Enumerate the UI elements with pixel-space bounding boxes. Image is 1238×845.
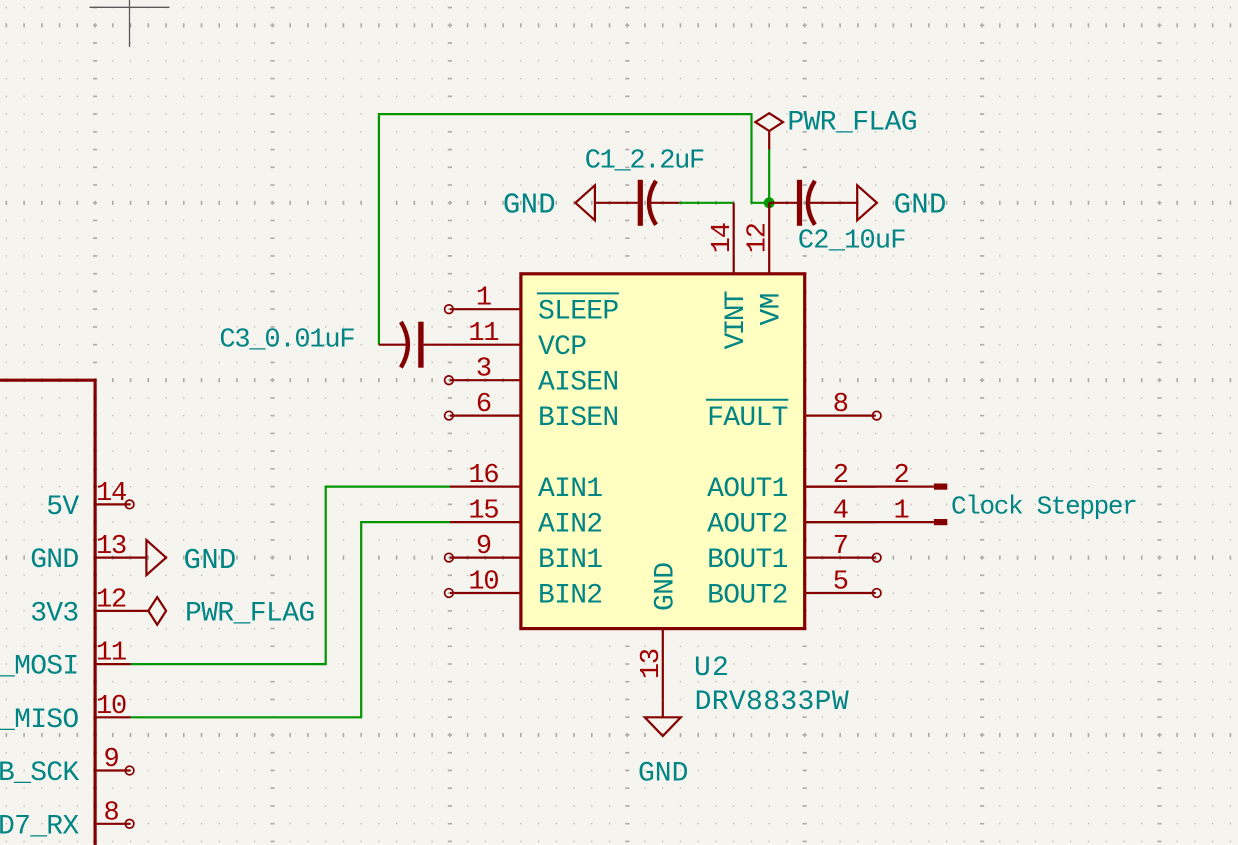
svg-text:10: 10 <box>96 692 126 722</box>
svg-text:PWR_FLAG: PWR_FLAG <box>185 599 315 630</box>
svg-text:AOUT2: AOUT2 <box>707 510 788 541</box>
svg-text:1: 1 <box>893 497 908 527</box>
svg-text:BOUT2: BOUT2 <box>707 581 788 612</box>
connector pin 10 _MISO <box>0 692 131 736</box>
IC pin 7 BOUT1 <box>707 532 881 576</box>
connector pin 14 5V <box>46 479 134 523</box>
svg-text:8: 8 <box>103 798 118 828</box>
svg-text:2: 2 <box>893 461 908 491</box>
IC pin 4 AOUT2 <box>707 497 876 541</box>
capacitor C2 10uF <box>769 180 906 257</box>
svg-text:14: 14 <box>708 223 738 253</box>
svg-text:GND: GND <box>650 563 681 611</box>
IC pin 15 AIN2 <box>450 497 603 541</box>
wire PWR_FLAG stub down to junction <box>768 150 770 203</box>
svg-text:SLEEP: SLEEP <box>538 297 619 328</box>
svg-text:GND: GND <box>638 758 688 789</box>
junction <box>764 197 775 208</box>
svg-text:13: 13 <box>96 532 126 562</box>
op IC U2 DRV8833PW body <box>521 274 805 629</box>
IC pin 6 BISEN <box>445 390 619 434</box>
power flag at VM junction <box>755 107 917 149</box>
svg-text:15: 15 <box>468 497 498 527</box>
connector pin 12 3V3 <box>30 585 130 629</box>
connector J1 body <box>0 380 95 845</box>
svg-text:11: 11 <box>96 639 126 669</box>
svg-text:AISEN: AISEN <box>538 368 619 399</box>
capacitor C1 2.2uF <box>585 147 704 226</box>
wire MISO to AIN2 <box>131 522 450 717</box>
svg-text:BIN1: BIN1 <box>538 545 602 576</box>
IC pin 1 SLEEP <box>445 284 619 328</box>
svg-text:12: 12 <box>744 223 774 253</box>
svg-text:5V: 5V <box>46 492 79 523</box>
power flag at connector pin 12 <box>131 597 315 629</box>
svg-text:9: 9 <box>476 532 491 562</box>
svg-text:5: 5 <box>833 568 848 598</box>
wire C1 to pin 14 VINT <box>679 202 734 204</box>
svg-text:BOUT1: BOUT1 <box>707 545 788 576</box>
stepper connector pin 1 <box>805 497 948 527</box>
ground symbol at connector pin 13 <box>131 540 237 577</box>
IC pin 9 BIN1 <box>445 532 603 576</box>
svg-text:_MOSI: _MOSI <box>0 652 79 683</box>
svg-text:BISEN: BISEN <box>538 403 619 434</box>
wire VCP net: C3 up and across to junction <box>379 114 769 345</box>
svg-text:13: 13 <box>637 649 667 679</box>
svg-text:8: 8 <box>833 390 848 420</box>
stepper connector pin 2 <box>805 461 948 491</box>
connector pin 11 _MOSI <box>0 639 131 683</box>
ground symbol below IC <box>638 700 688 790</box>
crosshair cursor <box>90 6 170 8</box>
IC pin 12 VM <box>744 203 788 326</box>
svg-text:Clock Stepper: Clock Stepper <box>951 491 1136 521</box>
svg-text:AIN2: AIN2 <box>538 510 602 541</box>
svg-text:1: 1 <box>476 284 491 314</box>
IC pin 13 GND <box>637 563 682 700</box>
svg-text:BIN2: BIN2 <box>538 581 602 612</box>
svg-text:14: 14 <box>96 479 126 509</box>
IC pin 8 FAULT <box>706 390 881 434</box>
svg-text:C2_10uF: C2_10uF <box>798 227 906 257</box>
svg-text:FAULT: FAULT <box>707 403 788 434</box>
svg-text:GND: GND <box>30 545 78 576</box>
svg-text:PWR_FLAG: PWR_FLAG <box>787 107 917 138</box>
connector pin 13 GND <box>30 532 130 576</box>
IC pin 2 AOUT1 <box>707 461 876 505</box>
svg-text:3V3: 3V3 <box>30 598 78 629</box>
IC pin 11 VCP <box>450 319 586 363</box>
IC pin 14 VINT <box>708 203 752 350</box>
ground symbol left of C1 <box>503 185 595 221</box>
connector pin 8 D7_RX <box>0 798 134 842</box>
svg-text:DRV8833PW: DRV8833PW <box>695 687 849 718</box>
svg-text:D7_RX: D7_RX <box>0 811 79 842</box>
IC pin 10 BIN2 <box>445 568 603 612</box>
svg-text:11: 11 <box>468 319 498 349</box>
ground symbol right of C2 <box>857 185 947 221</box>
svg-text:VM: VM <box>757 293 788 325</box>
IC pin 3 AISEN <box>445 355 619 399</box>
svg-text:10: 10 <box>468 568 498 598</box>
svg-text:GND: GND <box>894 189 947 222</box>
connector pin 9 B_SCK <box>0 745 134 789</box>
svg-text:GND: GND <box>503 189 556 222</box>
svg-text:U2: U2 <box>694 653 730 684</box>
IC pin 5 BOUT2 <box>707 568 881 612</box>
IC pin 16 AIN1 <box>450 461 603 505</box>
svg-text:GND: GND <box>184 544 237 577</box>
svg-text:12: 12 <box>96 585 126 615</box>
wire MOSI to AIN1 <box>131 487 450 664</box>
svg-text:6: 6 <box>476 390 491 420</box>
svg-text:3: 3 <box>476 355 491 385</box>
svg-text:7: 7 <box>833 532 848 562</box>
svg-text:C3_0.01uF: C3_0.01uF <box>219 325 354 355</box>
svg-text:16: 16 <box>468 461 498 491</box>
svg-text:AOUT1: AOUT1 <box>707 474 788 505</box>
svg-text:9: 9 <box>103 745 118 775</box>
svg-text:AIN1: AIN1 <box>538 474 602 505</box>
svg-text:C1_2.2uF: C1_2.2uF <box>585 147 704 177</box>
svg-text:VINT: VINT <box>721 291 752 349</box>
svg-text:B_SCK: B_SCK <box>0 758 79 789</box>
svg-text:_MISO: _MISO <box>0 705 79 736</box>
svg-text:VCP: VCP <box>538 332 586 363</box>
capacitor C3 0.01uF <box>219 322 450 368</box>
